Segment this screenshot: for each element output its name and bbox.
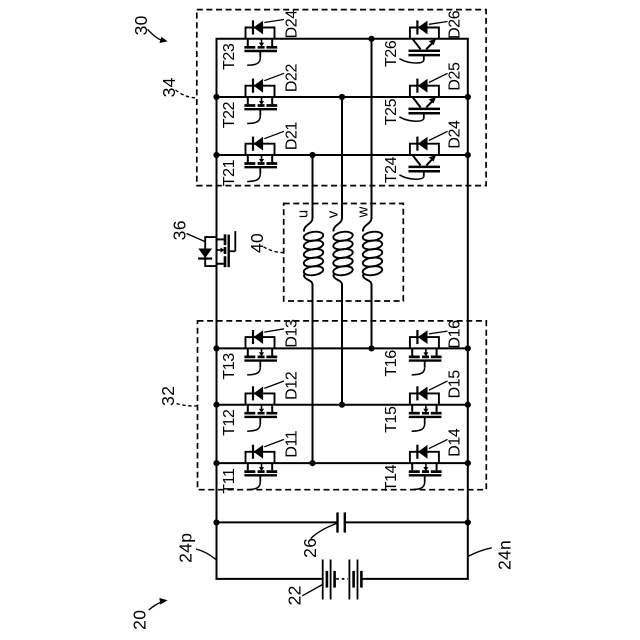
svg-text:D26: D26 [447,10,464,39]
label 30 with arrow [131,15,168,43]
node: left rail bottom row1 [213,345,219,351]
svg-text:T16: T16 [383,350,400,377]
svg-text:T25: T25 [383,98,400,125]
label 40 with dashed leader [247,233,283,253]
node: left rail top row2 [213,94,219,100]
transistor T16 [383,348,441,376]
diode D14 [410,428,464,463]
node: bottom row2 phase v tap [339,402,345,408]
svg-text:w: w [355,207,372,219]
transistor T25 [383,97,440,125]
svg-text:22: 22 [284,585,304,605]
diode D11 [246,430,301,463]
node: top row3 phase u tap [309,152,315,158]
svg-text:T21: T21 [221,159,238,186]
svg-text:D16: D16 [447,320,464,349]
label 34 with dashed leader [159,77,197,97]
wire: phase v vertical [341,97,343,219]
inductor coil w [362,218,383,285]
inductor coil u [303,218,324,285]
label 32 with dashed leader [158,386,197,406]
svg-text:T26: T26 [383,40,400,67]
svg-text:T12: T12 [221,409,238,436]
svg-text:T24: T24 [383,156,400,183]
svg-text:D15: D15 [447,370,464,399]
label 26 [300,524,337,558]
node: left rail bottom row3 [213,460,219,466]
svg-text:24p: 24p [175,533,195,563]
diode D15 [410,370,464,405]
transistor T12 [221,405,277,436]
transistor T23 [221,39,277,70]
capacitor 26 [338,512,345,532]
svg-text:24n: 24n [495,540,515,570]
transistor T21 [221,155,277,186]
svg-text:D25: D25 [447,62,464,91]
svg-text:v: v [325,210,342,218]
node: right rail bottom row1 [465,345,471,351]
diode D24 [410,120,464,155]
diode D12 [246,371,301,404]
svg-text:32: 32 [158,386,178,406]
diode D13 [246,319,301,348]
transistor T26 [383,39,440,67]
transistor T11 [221,463,277,494]
transistor T22 [221,97,277,128]
node: right rail bottom row3 [465,460,471,466]
diode D21 [246,122,301,155]
svg-text:D11: D11 [284,430,301,457]
inductor coil v [333,218,354,285]
wire: bottom block row 2 (T12/T15) [217,404,468,406]
wire: bottom block row 3 (T11/T14) [217,462,468,464]
wire: bottom block row 1 (T13/T16) [217,347,468,349]
wire: top block row 2 (T22/T25) [217,96,468,98]
node: bottom row3 phase u tap [309,460,315,466]
diode D16 [410,320,464,349]
wire: phase u vertical [312,155,314,219]
diode of 36 [198,237,216,266]
transistor T24 [383,155,440,183]
svg-text:36: 36 [170,220,190,240]
diode D24 (of T23) [246,10,301,39]
svg-text:D14: D14 [447,428,464,457]
diode D26 [410,10,464,39]
svg-text:D21: D21 [284,122,301,151]
svg-text:T14: T14 [383,464,400,491]
svg-text:T23: T23 [221,43,238,70]
svg-text:30: 30 [131,15,151,35]
svg-text:D12: D12 [284,371,301,400]
node: left rail bottom row2 [213,402,219,408]
svg-text:T11: T11 [221,468,238,494]
svg-text:20: 20 [129,610,149,630]
label 20 with arrow [129,598,167,630]
node: right rail capacitor row [465,519,471,525]
transistor T15 [383,405,441,433]
transistor T14 [383,463,441,491]
svg-text:T15: T15 [383,406,400,433]
wire: top block row 3 (T21/T24) [217,154,468,156]
label 24n [468,540,514,570]
wire: capacitor row [217,521,338,523]
diode D25 [410,62,464,97]
label 24p [175,533,215,563]
wire: phase w vertical [371,39,373,219]
svg-text:T13: T13 [221,353,238,380]
node: left rail capacitor row [213,519,219,525]
node: right rail top row2 [465,94,471,100]
dashed box 40 (motor windings) [284,204,404,302]
svg-text:34: 34 [159,77,179,97]
node: right rail bottom row2 [465,402,471,408]
label 22 [284,585,322,606]
svg-text:40: 40 [247,233,267,253]
node: left rail top row3 [213,152,219,158]
svg-text:D13: D13 [284,319,301,348]
dashed box 32 (bottom inverter) [198,321,487,490]
node: right rail top row3 [465,152,471,158]
transistor 36 (on left rail, rotated) [170,220,236,267]
svg-text:D22: D22 [284,64,301,93]
dashed box 34 (top converter) [197,10,486,186]
transistor T13 [221,348,277,379]
svg-text:u: u [294,210,311,218]
diode D22 [246,64,301,97]
svg-text:T22: T22 [221,101,238,128]
svg-text:D24: D24 [284,10,301,39]
node: top row1 phase w tap [368,36,374,42]
battery 22 [323,560,362,600]
node: top row2 phase v tap [339,94,345,100]
svg-text:26: 26 [300,538,320,558]
svg-text:D24: D24 [447,120,464,149]
wire: outer DC loop (left rail 24p, top row T23/T26, right rail 24n, battery row) [217,39,468,579]
node: bottom row1 phase w tap [368,345,374,351]
